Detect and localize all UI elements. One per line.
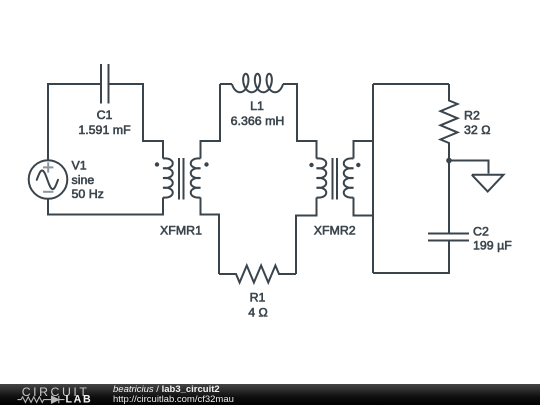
svg-text:6.366 mH: 6.366 mH [231,114,285,128]
svg-text:4 Ω: 4 Ω [248,306,268,320]
svg-text:sine: sine [72,173,95,187]
svg-text:XFMR1: XFMR1 [160,223,202,237]
svg-text:LAB: LAB [66,394,93,405]
svg-text:XFMR2: XFMR2 [314,223,356,237]
svg-text:L1: L1 [250,99,264,113]
svg-text:R2: R2 [464,108,480,122]
svg-text:199 µF: 199 µF [473,239,512,253]
svg-text:C1: C1 [97,108,113,122]
svg-text:1.591 mF: 1.591 mF [78,123,131,137]
svg-text:V1: V1 [72,159,87,173]
svg-text:50 Hz: 50 Hz [72,187,104,201]
svg-text:R1: R1 [250,291,266,305]
svg-text:C2: C2 [473,224,489,238]
svg-text:32 Ω: 32 Ω [464,123,491,137]
